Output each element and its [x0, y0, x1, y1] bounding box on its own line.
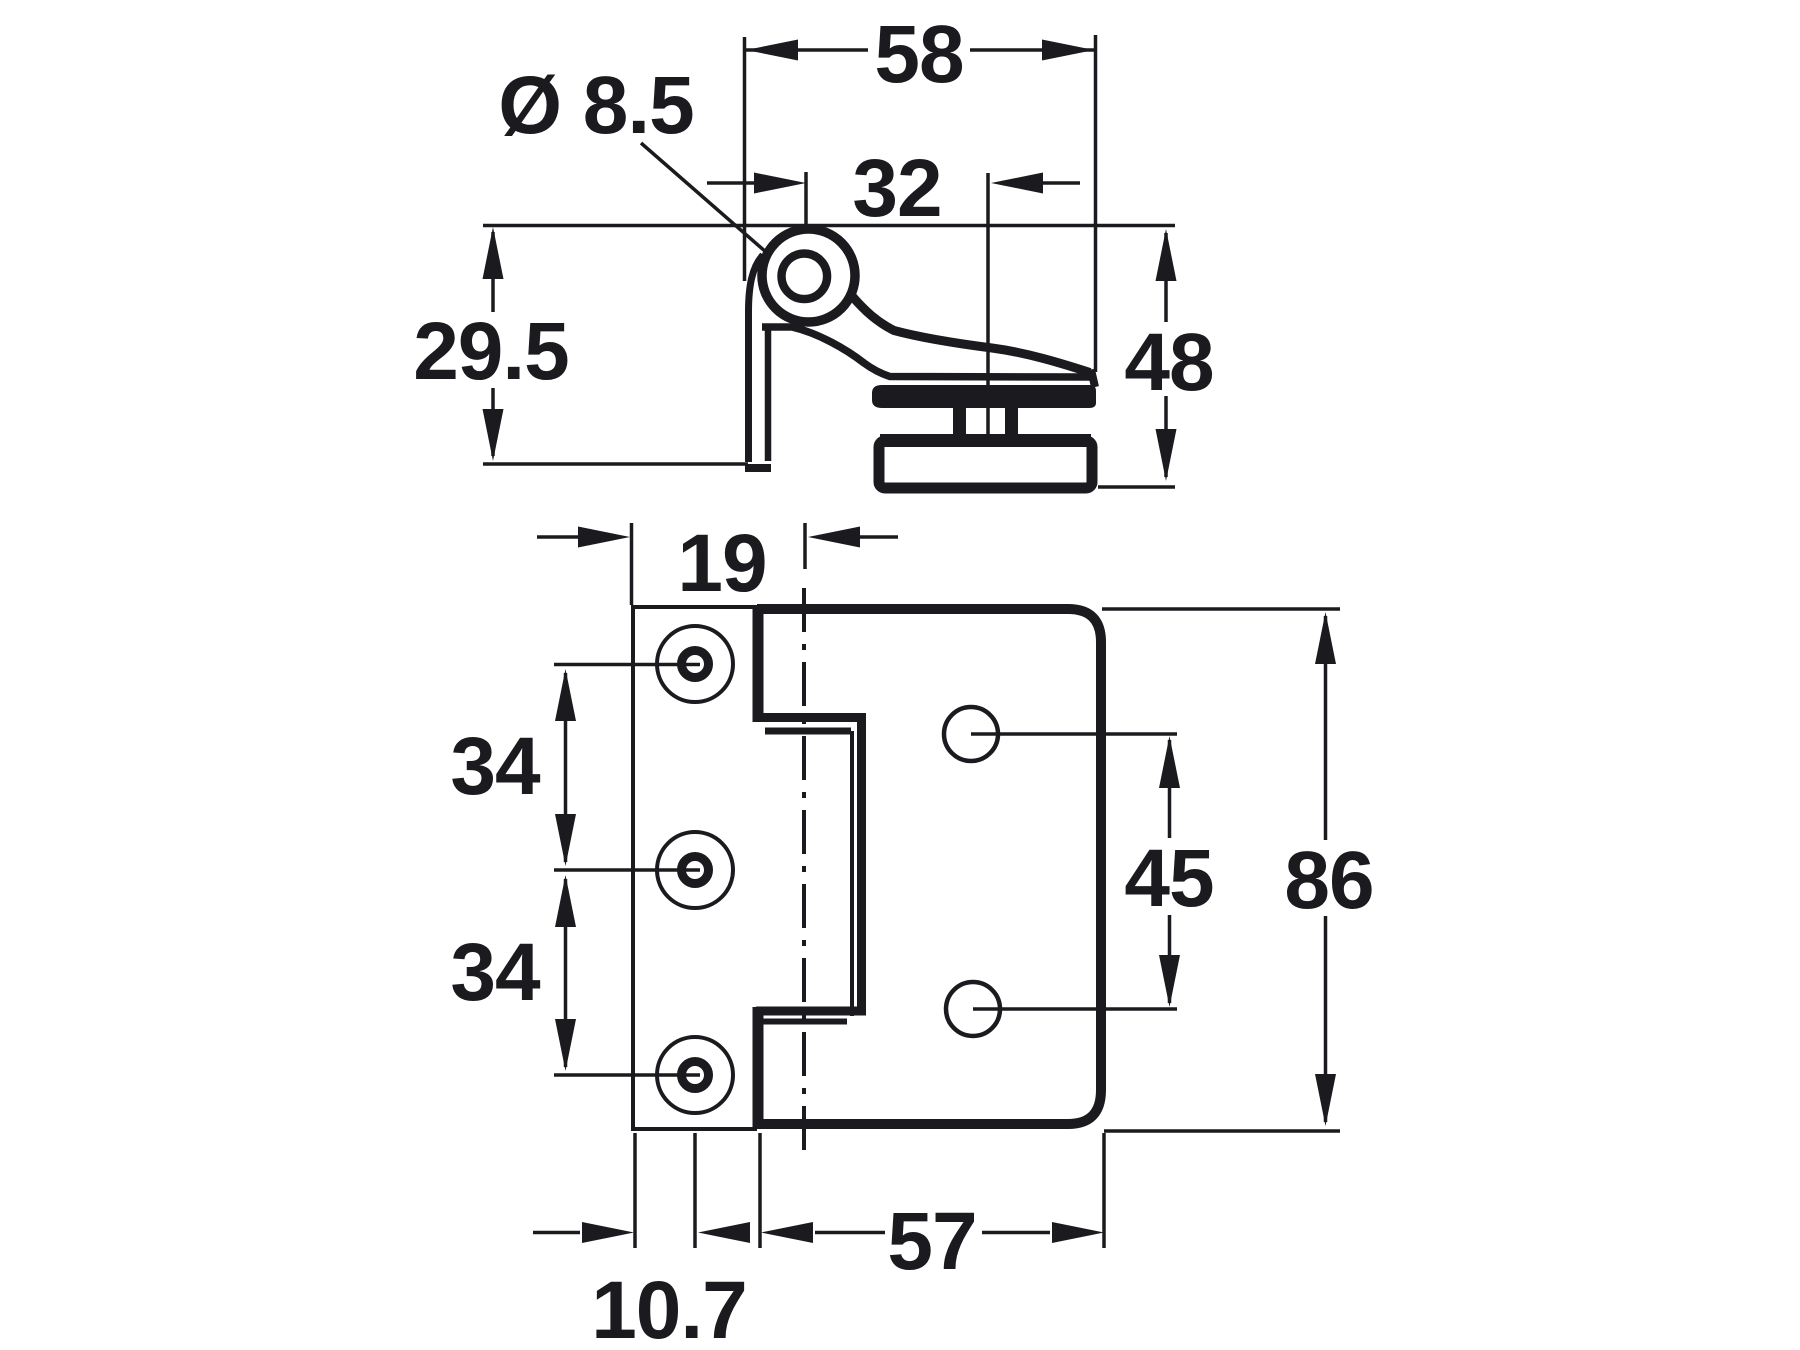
- hinge side view: knuckle ring: [762, 229, 855, 322]
- dimension 32: [707, 143, 1080, 234]
- screw hole 1 inner: [682, 651, 709, 678]
- extension line 32 right (clamp center): [986, 173, 990, 440]
- dimension 45: [1124, 736, 1213, 1007]
- knuckle notch outline: [756, 718, 862, 1012]
- dimension 10.7: [533, 1222, 750, 1350]
- dimension 57: [761, 1196, 1104, 1287]
- screw hole 1 outer: [657, 626, 733, 702]
- dimension 34 upper: [450, 669, 576, 866]
- hinge side view: vertical plate: [745, 255, 771, 468]
- dimension 19: [537, 518, 898, 609]
- dimension 34 lower: [450, 875, 576, 1071]
- plate hole bottom: [946, 982, 1000, 1036]
- centerline (dash-dot): [802, 588, 806, 1160]
- svg-text:86: 86: [1284, 835, 1373, 926]
- label diameter 8.5: [498, 60, 694, 151]
- clamp posts: [953, 400, 1018, 444]
- bottom-left reference line (29.5): [483, 462, 748, 466]
- plate hole top: [944, 707, 998, 761]
- svg-text:57: 57: [887, 1196, 976, 1287]
- top reference line (tangent to knuckle): [483, 224, 1175, 228]
- extension line 58 right: [1094, 35, 1098, 372]
- clamp bottom plate: [879, 434, 1092, 488]
- dimension 86: [1102, 609, 1374, 1131]
- pin centerline: [804, 172, 808, 281]
- svg-text:Ø 8.5: Ø 8.5: [498, 60, 694, 151]
- svg-text:34: 34: [450, 721, 541, 812]
- extension lines below plate: [635, 1133, 1104, 1248]
- dimension 58: [746, 9, 1094, 100]
- svg-text:10.7: 10.7: [591, 1265, 747, 1350]
- extension line 58 left: [743, 37, 747, 281]
- dimension 48: [1124, 229, 1213, 481]
- plate hole bottom leader: [973, 1007, 1177, 1011]
- fold line upper: [753, 607, 764, 722]
- screw hole 2 outer: [657, 832, 733, 908]
- screw hole 2 leader: [554, 868, 700, 872]
- plate hole top leader: [971, 732, 1177, 736]
- leader line for hole diameter: [641, 143, 774, 259]
- hinge side view: arm ledge and bottom edge: [762, 327, 1090, 377]
- svg-text:58: 58: [874, 9, 963, 100]
- clamp top plate: [872, 385, 1096, 408]
- svg-text:32: 32: [852, 143, 941, 234]
- svg-text:45: 45: [1124, 833, 1213, 924]
- svg-text:19: 19: [677, 518, 766, 609]
- hinge side view: pin hole: [782, 253, 828, 299]
- hinge side view: arm tip edge: [1091, 370, 1095, 388]
- screw hole 2 inner: [682, 857, 709, 884]
- screw hole 3 leader: [554, 1073, 700, 1077]
- bottom-right reference line (48): [1098, 485, 1175, 489]
- screw hole 3 inner: [682, 1062, 709, 1089]
- screw hole 1 leader: [554, 663, 700, 667]
- left leaf outline: [633, 607, 757, 1129]
- knuckle notch inner edge: [761, 731, 852, 1022]
- svg-text:29.5: 29.5: [413, 306, 569, 397]
- svg-text:34: 34: [450, 927, 541, 1018]
- hinge side view: arm top edge: [852, 296, 1090, 373]
- fold line lower: [753, 1007, 764, 1129]
- right leaf outline: [757, 609, 1101, 1124]
- dimension 29.5: [413, 227, 569, 461]
- svg-text:48: 48: [1124, 317, 1213, 408]
- screw hole 3 outer: [657, 1037, 733, 1113]
